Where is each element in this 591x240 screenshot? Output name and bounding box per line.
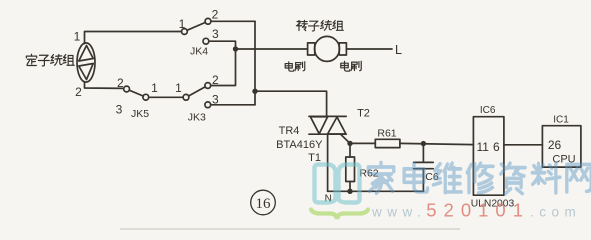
wire IC6 to IC1 bbox=[504, 144, 543, 146]
label 电刷 (right brush) bbox=[341, 61, 361, 71]
wire JK4 contact 2 to vertical bus bbox=[211, 20, 255, 22]
svg-text:6: 6 bbox=[493, 140, 500, 154]
wire neutral rail bbox=[328, 190, 424, 192]
junction node (motor left lead) bbox=[233, 46, 238, 51]
resistor R61 bbox=[375, 139, 400, 147]
IC U1 CPU box bbox=[542, 126, 581, 167]
switch JK5 bbox=[124, 86, 149, 100]
stator winding coil L1 bbox=[77, 43, 95, 82]
capacitor C6 bbox=[414, 146, 434, 191]
wire to JK3 contact 3 bbox=[211, 104, 255, 106]
junction node (gate) bbox=[347, 141, 352, 146]
svg-text:3: 3 bbox=[212, 27, 219, 41]
junction node (R62 bottom) bbox=[347, 189, 352, 194]
svg-text:L: L bbox=[395, 43, 402, 57]
svg-text:IC1: IC1 bbox=[553, 115, 569, 126]
wire motor left lead bbox=[236, 48, 308, 50]
svg-text:1: 1 bbox=[179, 17, 186, 31]
svg-text:26: 26 bbox=[548, 138, 562, 152]
svg-text:1: 1 bbox=[74, 30, 81, 44]
switch JK3 bbox=[183, 83, 211, 108]
watermark brace bbox=[311, 210, 368, 220]
svg-text:1: 1 bbox=[151, 81, 158, 95]
figure number 16 bbox=[251, 190, 276, 215]
svg-text:3: 3 bbox=[116, 103, 123, 117]
svg-text:T1: T1 bbox=[308, 152, 321, 164]
motor M (rotor) bbox=[308, 36, 347, 61]
svg-text:JK4: JK4 bbox=[190, 46, 208, 58]
svg-text:16: 16 bbox=[256, 196, 272, 212]
svg-text:R61: R61 bbox=[377, 127, 396, 139]
svg-text:2: 2 bbox=[75, 85, 82, 99]
switch JK4 bbox=[182, 18, 211, 44]
svg-text:TR4: TR4 bbox=[279, 125, 300, 137]
wire triac T1 to neutral rail bbox=[327, 134, 329, 191]
svg-text:JK5: JK5 bbox=[131, 108, 149, 120]
watermark book icon bbox=[315, 165, 360, 203]
label 电刷 (left brush) bbox=[285, 62, 305, 71]
svg-text:2: 2 bbox=[212, 8, 219, 22]
junction node (triac branch) bbox=[252, 89, 257, 94]
svg-text:BTA416Y: BTA416Y bbox=[276, 139, 323, 151]
IC U6 ULN2003 box bbox=[473, 117, 504, 196]
wire R61 to IC6 bbox=[400, 143, 474, 144]
svg-text:2: 2 bbox=[212, 73, 219, 87]
wire motor node down to JK3 contact 2 bbox=[211, 49, 236, 86]
wire vertical bus (JK4-2 / JK3-3 / triac T2 node) bbox=[254, 21, 256, 105]
watermark 家电维修资料网 bbox=[368, 163, 591, 194]
svg-text:3: 3 bbox=[212, 92, 219, 106]
wire JK4 contact 3 down to motor node bbox=[209, 41, 236, 49]
scan artifact line bbox=[120, 228, 460, 230]
svg-text:2: 2 bbox=[117, 76, 124, 90]
svg-text:11: 11 bbox=[476, 140, 489, 154]
label 定子绕组 (stator winding) bbox=[26, 54, 74, 66]
triac TR4 BTA416Y bbox=[309, 116, 346, 134]
wire gate to R61 bbox=[350, 142, 375, 144]
resistor R62 bbox=[346, 146, 355, 191]
wire motor right lead to L bbox=[346, 48, 392, 50]
label 转子绕组 (rotor winding) bbox=[296, 20, 343, 31]
wire branch to triac T2 bbox=[255, 91, 327, 116]
svg-text:T2: T2 bbox=[357, 107, 370, 119]
wire coil bottom to JK5 contact 2 bbox=[85, 82, 124, 89]
svg-text:1: 1 bbox=[175, 81, 182, 95]
junction node (C6 tap) bbox=[421, 141, 426, 146]
wire coil top to JK4 contact 1 bbox=[85, 32, 182, 44]
svg-text:IC6: IC6 bbox=[480, 105, 496, 116]
wire triac gate bbox=[341, 134, 351, 143]
wire JK5 contact 1 to JK3 contact 1 bbox=[149, 96, 184, 98]
svg-text:JK3: JK3 bbox=[188, 111, 206, 123]
